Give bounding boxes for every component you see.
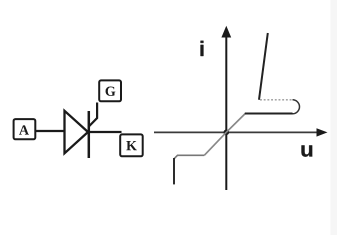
curve QI leakage diagonal [226,114,245,133]
curve QI on-state line [259,33,268,100]
origin node dot [224,130,230,136]
thyristor D1 cathode bar [88,111,91,158]
thyristor D1 triangle (anode) [65,111,89,154]
curve QIII leakage diagonal [204,132,226,155]
curve QI forward blocking line [245,113,293,115]
wire A to thyristor [35,130,64,132]
i axis [221,26,231,190]
gate wire [89,103,97,127]
u axis [154,128,328,136]
wire thyristor to K [88,131,122,133]
curve QIII breakdown line [173,158,175,184]
curve QI negative-resistance dashed line [259,99,292,101]
axis label i [201,41,204,56]
curve QI breakover curl [293,100,300,114]
terminal box K [120,134,143,156]
terminal box G [99,80,121,101]
curve QIII reverse blocking line [174,155,204,159]
terminal box A [14,119,36,139]
axis label u [301,145,312,156]
